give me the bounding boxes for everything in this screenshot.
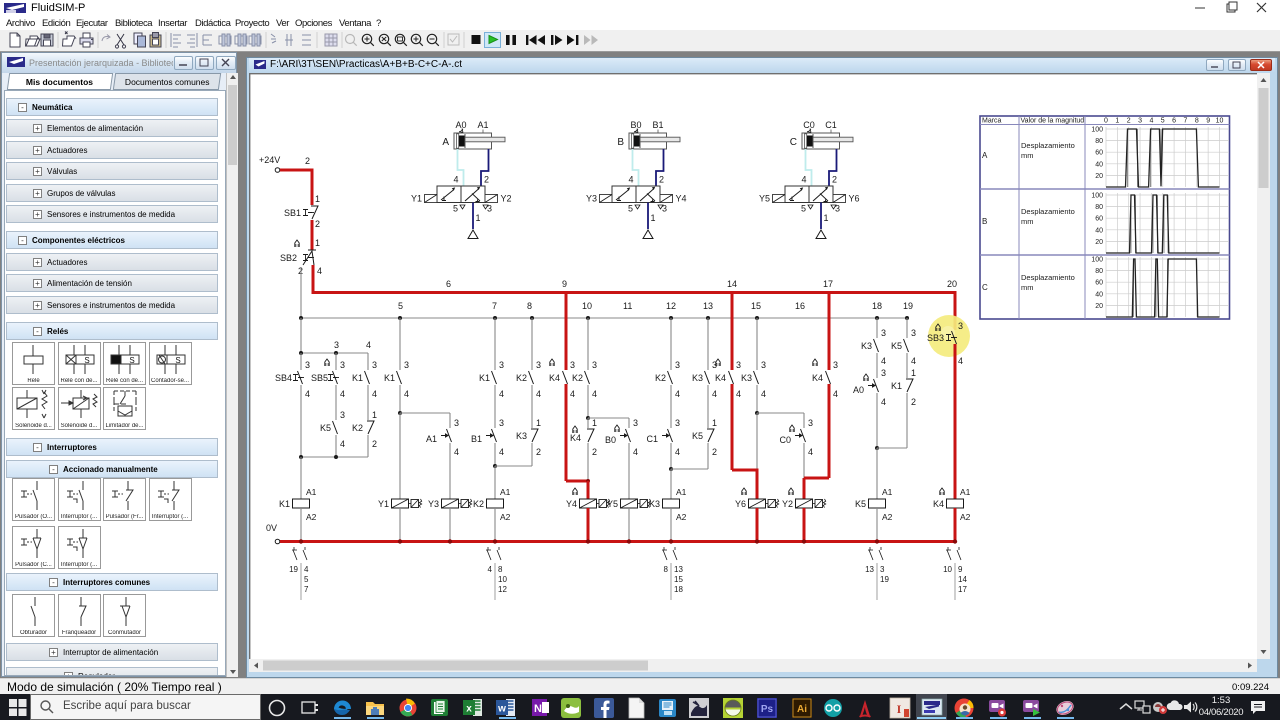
tube B cylinder rod-side (pressurized) — [656, 149, 664, 186]
svg-text:w: w — [497, 704, 506, 715]
svg-text:K3: K3 — [649, 499, 660, 509]
wire 9 (energized from bus) — [566, 291, 575, 370]
svg-text:K5: K5 — [692, 431, 703, 441]
svg-text:3: 3 — [305, 360, 310, 370]
svg-text:K1: K1 — [479, 373, 490, 383]
svg-text:13: 13 — [703, 301, 713, 311]
wire into Y6 (active) — [756, 469, 759, 500]
wire K3 to 0V — [670, 508, 672, 542]
svg-text:10: 10 — [498, 575, 507, 584]
contact cross-reference K4 — [943, 547, 967, 600]
svg-text:4: 4 — [305, 389, 310, 399]
relay coil K2 — [473, 487, 511, 522]
diagram row A labels — [982, 141, 1075, 160]
solenoid coil Y3 — [428, 499, 472, 509]
valve Y1/Y2 (5/2 solenoid valve) — [411, 175, 512, 224]
svg-text:1: 1 — [592, 418, 597, 428]
contact K1 (col5 NO) — [384, 371, 409, 399]
svg-text:3: 3 — [487, 204, 492, 214]
svg-text:K1: K1 — [384, 373, 395, 383]
svg-text:K2: K2 — [352, 423, 363, 433]
svg-text:8: 8 — [1195, 118, 1199, 125]
svg-text:5: 5 — [1161, 118, 1165, 125]
compressed air supply for valve A — [468, 203, 478, 239]
limit contact B1 (NO) — [471, 429, 504, 457]
wire K2 down — [367, 435, 369, 457]
contact K5 (col13 NC) — [692, 429, 717, 457]
diagram row B grid — [1091, 193, 1229, 254]
svg-text:A2: A2 — [306, 512, 317, 522]
svg-text:3: 3 — [833, 360, 838, 370]
wire col18 mid — [877, 353, 886, 378]
svg-text:11: 11 — [623, 301, 632, 311]
wire col19 low — [906, 393, 908, 448]
left library panel — [1, 52, 237, 677]
contact K4 (col17 NO, closed) — [812, 359, 838, 399]
contact K2 (col12 NO) — [655, 371, 680, 399]
svg-text:C: C — [982, 283, 988, 292]
svg-text:x: x — [466, 704, 472, 715]
svg-text:N: N — [534, 703, 542, 715]
svg-text:3: 3 — [454, 418, 459, 428]
tube C cylinder rod-side (pressurized) — [829, 149, 837, 186]
svg-text:C1: C1 — [646, 434, 658, 444]
svg-text:4: 4 — [958, 356, 963, 366]
wire col18 from bus — [877, 318, 886, 338]
svg-text:2: 2 — [592, 447, 597, 457]
wire SB2 NC branch down to rung bus — [300, 267, 302, 318]
svg-text:3: 3 — [808, 418, 813, 428]
svg-text:7: 7 — [1183, 118, 1187, 125]
cylinder A — [442, 120, 505, 149]
svg-text:2: 2 — [712, 447, 717, 457]
0V supply terminal — [266, 523, 280, 544]
svg-text:3: 3 — [592, 360, 597, 370]
displacement curve C — [1106, 259, 1220, 317]
node join K5-rung — [877, 447, 907, 449]
svg-text:40: 40 — [1095, 291, 1103, 298]
svg-text:7: 7 — [492, 301, 497, 311]
wire to relay K5 — [876, 448, 878, 499]
svg-text:K5: K5 — [891, 341, 902, 351]
svg-text:A1: A1 — [882, 487, 893, 497]
svg-text:80: 80 — [1095, 268, 1103, 275]
wire 2 (+24V feeder) — [280, 156, 312, 170]
solenoid coil Y5 — [607, 499, 651, 509]
svg-text:8: 8 — [664, 565, 669, 574]
wire col14 active down — [731, 384, 734, 470]
svg-text:100: 100 — [1091, 193, 1103, 200]
svg-text:K3: K3 — [741, 373, 752, 383]
contact K2 (col10 NO) — [572, 371, 597, 399]
contact K2 (col8 NO) — [516, 371, 541, 399]
svg-text:4: 4 — [404, 389, 409, 399]
svg-text:A0: A0 — [455, 120, 466, 130]
svg-text:2: 2 — [305, 156, 310, 166]
contact cross-reference K1 — [289, 547, 309, 600]
contact K3 (col18 NO) — [861, 339, 886, 366]
svg-text:Y4: Y4 — [566, 499, 577, 509]
svg-text:20: 20 — [1095, 239, 1103, 246]
wire col13 from bus — [708, 318, 717, 370]
wire into Y2 — [803, 478, 806, 499]
svg-text:4: 4 — [340, 389, 345, 399]
svg-text:16: 16 — [795, 301, 805, 311]
svg-text:2: 2 — [315, 219, 320, 229]
wire col5 to Y1 — [399, 413, 401, 499]
status bar — [0, 678, 1280, 694]
svg-text:SB5: SB5 — [311, 373, 328, 383]
svg-text:A1: A1 — [960, 487, 971, 497]
svg-text:2: 2 — [484, 175, 489, 185]
svg-text:A: A — [982, 151, 988, 160]
svg-text:20: 20 — [947, 279, 957, 289]
svg-text:20: 20 — [1095, 303, 1103, 310]
svg-text:A1: A1 — [477, 120, 488, 130]
svg-text:1: 1 — [911, 368, 916, 378]
contact K5 (NO) — [320, 421, 345, 449]
svg-text:9: 9 — [1206, 118, 1210, 125]
svg-text:9: 9 — [958, 565, 963, 574]
wire col20 active down — [954, 344, 957, 499]
wire stubs to contacts row1 — [301, 353, 368, 370]
svg-text:S: S — [175, 356, 180, 365]
svg-text:0: 0 — [1104, 118, 1108, 125]
svg-text:4: 4 — [628, 175, 633, 185]
wire Y2 to 0V (active) — [803, 508, 806, 542]
solenoid coil Y6 (energized) — [735, 488, 779, 509]
svg-text:8: 8 — [498, 565, 503, 574]
svg-text:2: 2 — [372, 439, 377, 449]
wire col15 mid — [755, 385, 759, 415]
svg-text:A1: A1 — [676, 487, 687, 497]
+24V supply terminal — [259, 155, 280, 172]
compressed air supply for valve B — [643, 203, 653, 239]
wire col10 mid — [586, 385, 590, 420]
svg-text:Ai: Ai — [797, 704, 807, 715]
relay coil K3 — [649, 487, 687, 522]
svg-text:4: 4 — [499, 389, 504, 399]
svg-text:3: 3 — [570, 360, 575, 370]
svg-text:2: 2 — [1127, 118, 1131, 125]
node join K2-rung — [495, 465, 532, 467]
svg-text:60: 60 — [1095, 150, 1103, 157]
svg-text:K4: K4 — [549, 373, 560, 383]
wire col10 low — [587, 443, 589, 481]
svg-text:4: 4 — [833, 389, 838, 399]
svg-text:SB4: SB4 — [275, 373, 292, 383]
svg-text:100: 100 — [1091, 127, 1103, 134]
svg-text:2: 2 — [832, 175, 837, 185]
svg-text:2: 2 — [659, 175, 664, 185]
svg-text:Y1: Y1 — [411, 194, 422, 204]
wire 20 (energized from bus) — [954, 291, 957, 330]
svg-text:3: 3 — [499, 418, 504, 428]
svg-text:2: 2 — [536, 447, 541, 457]
svg-text:3: 3 — [340, 360, 345, 370]
bus wire 0V (return rail, active) — [280, 539, 957, 543]
tube C cylinder cap-side (vented) — [806, 149, 812, 186]
wire K5 to 0V — [876, 508, 878, 542]
limit contact C0 (NO, actuated) — [779, 425, 813, 457]
toolbar — [0, 30, 1280, 52]
solenoid coil Y1 — [378, 499, 422, 509]
svg-text:2: 2 — [911, 397, 916, 407]
wire branch col10-col11 — [588, 417, 629, 419]
svg-text:mm: mm — [1021, 283, 1034, 292]
node join K1-rung — [299, 455, 368, 459]
wire col12 from bus — [671, 318, 680, 370]
svg-text:1: 1 — [536, 418, 541, 428]
contact K2 (NC) — [352, 421, 377, 449]
wire col12 low — [669, 443, 673, 471]
svg-text:17: 17 — [958, 585, 967, 594]
wire col18 low — [875, 393, 879, 450]
svg-text:9: 9 — [562, 279, 567, 289]
wire col17 to col16 (active) — [804, 477, 829, 480]
svg-text:3: 3 — [675, 418, 680, 428]
contact K3 (col13 NO) — [692, 371, 717, 399]
svg-text:3: 3 — [835, 204, 840, 214]
wire col14 to col15 (active) — [732, 469, 757, 472]
displacement curve A — [1106, 129, 1220, 187]
svg-text:A2: A2 — [676, 512, 687, 522]
wire col6 to Y3 — [449, 443, 451, 499]
svg-text:A2: A2 — [500, 512, 511, 522]
contact cross-reference K5 — [865, 547, 889, 600]
relay coil K1 — [279, 487, 317, 522]
svg-text:18: 18 — [674, 585, 683, 594]
svg-text:mm: mm — [1021, 151, 1034, 160]
pushbutton SB1 (NC) — [284, 194, 320, 229]
svg-text:S: S — [84, 356, 89, 365]
svg-text:4: 4 — [808, 447, 813, 457]
svg-text:K2: K2 — [655, 373, 666, 383]
svg-text:14: 14 — [958, 575, 967, 584]
svg-text:SB3: SB3 — [927, 333, 944, 343]
svg-text:3: 3 — [881, 328, 886, 338]
svg-text:Desplazamiento: Desplazamiento — [1021, 141, 1075, 150]
svg-text:K4: K4 — [570, 433, 581, 443]
wire col15 from bus — [757, 318, 766, 370]
svg-text:4: 4 — [488, 565, 493, 574]
node split K1-rung — [299, 340, 371, 355]
state diagram table frame — [980, 116, 1230, 319]
svg-text:3: 3 — [761, 360, 766, 370]
wire col13 mid — [708, 385, 717, 428]
wire SB1-SB2 — [312, 220, 320, 250]
bus wire 6 (+24V energized rail) — [312, 279, 958, 293]
svg-text:4: 4 — [761, 389, 766, 399]
svg-text:Y6: Y6 — [735, 499, 746, 509]
svg-text:1: 1 — [712, 418, 717, 428]
compressed air supply for valve C — [816, 203, 826, 239]
switch SB5 (NO latched, actuated) — [311, 359, 345, 399]
svg-text:4: 4 — [317, 266, 322, 276]
svg-text:4: 4 — [499, 447, 504, 457]
wire into Y4 — [587, 481, 590, 499]
svg-text:5: 5 — [801, 204, 806, 214]
svg-text:13: 13 — [865, 565, 874, 574]
contact K5 (col19 NO) — [891, 339, 916, 366]
svg-text:K2: K2 — [473, 499, 484, 509]
relay coil K5 — [855, 487, 893, 522]
limit contact A1 (NO) — [426, 429, 459, 457]
svg-text:4: 4 — [911, 356, 916, 366]
wire to relay K3 — [670, 469, 672, 499]
menu bar — [0, 16, 1280, 30]
wire col8 low — [531, 443, 533, 466]
svg-text:C0: C0 — [803, 120, 815, 130]
svg-text:4: 4 — [675, 389, 680, 399]
wire col1 from bus — [300, 318, 302, 353]
svg-text:1: 1 — [824, 213, 829, 223]
wire col10 from bus — [588, 318, 597, 370]
svg-text:3: 3 — [340, 410, 345, 420]
pushbutton SB3 (NO, pressed) — [927, 321, 963, 366]
tube B cylinder cap-side (vented) — [633, 149, 639, 186]
svg-text:10: 10 — [943, 565, 952, 574]
wire 17 (energized from bus) — [829, 291, 838, 370]
wire col12 mid — [671, 385, 680, 428]
svg-text:3: 3 — [372, 360, 377, 370]
wire K1 to 0V — [300, 508, 302, 542]
wire col5 mid — [398, 385, 402, 415]
svg-text:B: B — [982, 217, 987, 226]
wire K2 to 0V — [494, 508, 496, 542]
svg-text:3: 3 — [404, 360, 409, 370]
svg-text:Y1: Y1 — [378, 499, 389, 509]
contact K4 (col9 NO, closed) — [549, 359, 575, 399]
svg-text:Y3: Y3 — [586, 194, 597, 204]
wire K4 to 0V (active) — [954, 508, 957, 542]
svg-text:K3: K3 — [516, 431, 527, 441]
diagram row C labels — [982, 273, 1075, 292]
contact cross-reference K3 — [662, 547, 683, 600]
svg-text:3: 3 — [1138, 118, 1142, 125]
svg-text:C1: C1 — [825, 120, 837, 130]
node Y4 top (active) — [586, 479, 590, 483]
wire Y4 to 0V (active) — [587, 508, 590, 542]
wire Y1 to 0V — [399, 508, 401, 542]
svg-text:I: I — [897, 702, 902, 716]
svg-text:4: 4 — [633, 447, 638, 457]
svg-text:K1: K1 — [891, 381, 902, 391]
diagram row B labels — [982, 207, 1075, 226]
svg-text:19: 19 — [903, 301, 913, 311]
svg-text:A0: A0 — [853, 385, 864, 395]
svg-text:4: 4 — [570, 389, 575, 399]
svg-text:4: 4 — [801, 175, 806, 185]
diagram row A grid — [1091, 127, 1229, 188]
wire SB5-K5 — [336, 385, 345, 420]
svg-text:SB2: SB2 — [280, 253, 297, 263]
wire K1-K2 — [368, 385, 377, 420]
svg-text:10: 10 — [1216, 118, 1224, 125]
svg-text:A1: A1 — [306, 487, 317, 497]
svg-text:40: 40 — [1095, 161, 1103, 168]
svg-text:5: 5 — [628, 204, 633, 214]
svg-text:Desplazamiento: Desplazamiento — [1021, 273, 1075, 282]
svg-text:Y6: Y6 — [849, 194, 860, 204]
cursor highlight on SB3 — [928, 315, 970, 357]
svg-text:K3: K3 — [692, 373, 703, 383]
contact K1 (col7 NO) — [479, 371, 504, 399]
tube A cylinder cap-side (vented) — [458, 149, 464, 186]
wire col8 from bus — [532, 318, 541, 370]
valve Y3/Y4 (5/2 solenoid valve) — [586, 175, 687, 224]
tube A cylinder rod-side (pressurized) — [481, 149, 489, 186]
contact K4 (col14 NO, closed) — [715, 359, 741, 399]
wire col16 stub — [804, 413, 813, 428]
svg-text:Valor de la magnitud: Valor de la magnitud — [1021, 118, 1085, 125]
svg-text:B1: B1 — [471, 434, 482, 444]
svg-text:1: 1 — [1115, 118, 1119, 125]
svg-text:K4: K4 — [715, 373, 726, 383]
svg-text:K1: K1 — [279, 499, 290, 509]
wire 14 (energized from bus) — [732, 291, 741, 370]
svg-text:18: 18 — [872, 301, 882, 311]
wire col15 low — [756, 413, 758, 470]
svg-text:19: 19 — [880, 575, 889, 584]
svg-text:4: 4 — [454, 447, 459, 457]
wire col10 stub — [588, 418, 597, 428]
wire SB4 down — [300, 385, 302, 457]
wire col11 to Y5 — [628, 443, 630, 499]
svg-text:B: B — [617, 137, 624, 148]
svg-text:Y4: Y4 — [676, 194, 687, 204]
contact cross-reference K2 — [486, 547, 507, 600]
svg-text:+24V: +24V — [259, 155, 280, 165]
svg-text:3: 3 — [881, 368, 886, 378]
svg-text:3: 3 — [880, 565, 885, 574]
svg-text:15: 15 — [674, 575, 683, 584]
svg-text:20: 20 — [1095, 173, 1103, 180]
wire col7 mid — [495, 385, 504, 428]
contact K1 (NO, self-hold) — [352, 360, 377, 399]
svg-text:B1: B1 — [652, 120, 663, 130]
wire col9 to Y4 (active) — [566, 480, 588, 483]
node join K3-rung — [671, 468, 708, 470]
wire col9 active down — [565, 384, 568, 481]
svg-text:3: 3 — [334, 340, 339, 350]
displacement curve B — [1106, 195, 1220, 253]
svg-text:4: 4 — [366, 340, 371, 350]
svg-text:Y2: Y2 — [782, 499, 793, 509]
limit contact C1 (NO) — [646, 429, 680, 457]
svg-text:C: C — [790, 137, 797, 148]
taskbar — [0, 694, 1280, 720]
svg-text:K4: K4 — [933, 499, 944, 509]
svg-text:8: 8 — [527, 301, 532, 311]
svg-text:1: 1 — [651, 213, 656, 223]
svg-text:6: 6 — [1172, 118, 1176, 125]
svg-text:4: 4 — [881, 356, 886, 366]
pushbutton SB4 (NO) — [275, 360, 310, 399]
svg-text:19: 19 — [289, 565, 298, 574]
wire col19 mid — [907, 353, 916, 378]
svg-text:17: 17 — [823, 279, 833, 289]
svg-text:Ps: Ps — [761, 704, 774, 715]
svg-text:3: 3 — [736, 360, 741, 370]
svg-text:60: 60 — [1095, 216, 1103, 223]
svg-text:3: 3 — [911, 328, 916, 338]
svg-text:Y5: Y5 — [607, 499, 618, 509]
svg-text:SB1: SB1 — [284, 208, 301, 218]
svg-text:0V: 0V — [266, 523, 277, 533]
svg-text:80: 80 — [1095, 138, 1103, 145]
svg-text:1: 1 — [372, 410, 377, 420]
